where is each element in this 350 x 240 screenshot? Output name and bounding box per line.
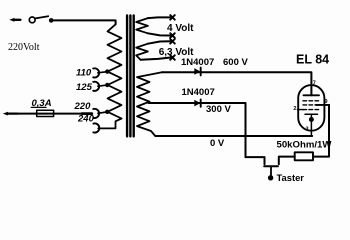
mains plug bottom [3, 112, 18, 116]
tap 125 socket hook [93, 82, 99, 91]
tube anode plate (pin 7) [304, 94, 320, 96]
tube EL84 envelope [298, 85, 324, 131]
6,3V top terminal x [170, 39, 175, 44]
wire switch to transformer primary top [53, 20, 116, 24]
tap 220 socket hook [93, 109, 99, 118]
fuse body [37, 110, 54, 116]
secondary HV winding [137, 72, 162, 136]
svg-text:1N4007: 1N4007 [182, 87, 215, 98]
6,3V top lead [148, 41, 171, 43]
wire resistor to taster right contact [279, 157, 295, 165]
tube grid g3 [303, 100, 320, 102]
4V top lead [148, 16, 171, 19]
6,3V bottom lead [141, 58, 171, 60]
4V bottom terminal x [170, 33, 175, 38]
secondary winding 4V [136, 18, 148, 33]
wire fuse through and to 220 socket, thick plug tip [37, 113, 82, 115]
cathode dot [309, 117, 314, 122]
svg-text:240: 240 [77, 114, 95, 125]
svg-text:Taster: Taster [277, 172, 305, 183]
svg-text:3: 3 [306, 127, 309, 133]
4V bottom lead [148, 33, 171, 35]
svg-text:300 V: 300 V [206, 104, 231, 115]
svg-text:4 Volt: 4 Volt [167, 23, 194, 34]
transformer primary winding [108, 24, 122, 118]
svg-text:7: 7 [313, 80, 316, 86]
svg-text:600 V: 600 V [223, 57, 248, 68]
svg-text:0 V: 0 V [210, 138, 225, 149]
tube grid g2 with pin 9 lead [303, 104, 320, 106]
diode D2 1N4007 [194, 99, 200, 106]
wire 600V anode line [162, 72, 311, 95]
svg-text:220Volt: 220Volt [8, 42, 40, 53]
wire 300V tap line [149, 103, 246, 157]
resistor 50kOhm body [295, 152, 313, 160]
svg-text:2: 2 [293, 106, 296, 112]
svg-text:9: 9 [325, 99, 328, 105]
wire primary bottom to 240 socket [98, 119, 121, 129]
svg-text:50kOhm/1W: 50kOhm/1W [277, 139, 333, 150]
wire 300V branch to taster left contact [246, 157, 265, 164]
6,3V bottom terminal x [170, 55, 175, 60]
wire plug to fuse [18, 113, 37, 115]
taster stem [270, 166, 272, 175]
transformer core [127, 16, 134, 137]
tube cathode [305, 113, 318, 115]
svg-text:220: 220 [74, 101, 92, 112]
tap 220 stub and junction dot [98, 112, 107, 113]
svg-text:125: 125 [76, 82, 93, 93]
tap 110 socket hook [93, 68, 99, 77]
tube grid g1 with pin 2 stub [303, 109, 320, 111]
wire pin9 down to resistor [313, 105, 329, 157]
underline under 0,3A [31, 106, 46, 108]
tap 110 stub and junction dot [98, 72, 106, 73]
switch [29, 16, 53, 23]
mains plug top [9, 18, 20, 22]
wire 0V line [155, 135, 312, 137]
secondary winding 6,3V [136, 44, 148, 60]
diode D1 1N4007 [194, 68, 200, 76]
svg-text:EL 84: EL 84 [296, 53, 329, 67]
tap 240 socket hook [93, 123, 99, 132]
taster button dot [268, 175, 273, 180]
cathode stem to 0V (pin 3) [310, 114, 312, 136]
taster bridge bar [264, 165, 278, 167]
4V top terminal x [170, 15, 175, 20]
svg-text:1N4007: 1N4007 [181, 57, 214, 68]
svg-text:110: 110 [76, 67, 92, 78]
tap 125 stub and junction dot [98, 85, 106, 86]
